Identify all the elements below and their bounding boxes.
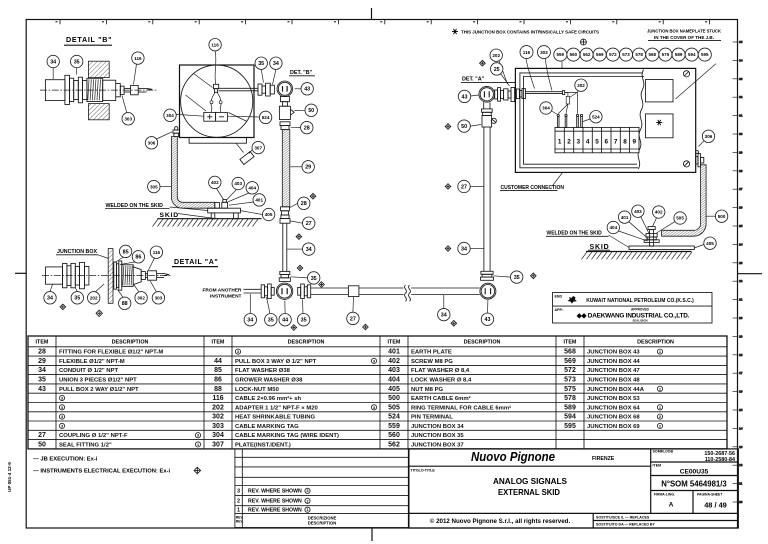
- svg-text:FLAT WASHER Ø 8,4: FLAT WASHER Ø 8,4: [411, 368, 470, 374]
- svg-text:CABLE 2×0.96 mm²+ sh: CABLE 2×0.96 mm²+ sh: [235, 395, 302, 402]
- balloon 305 flex: [148, 180, 160, 192]
- svg-text:INSTRUMENT: INSTRUMENT: [210, 293, 242, 299]
- balloon 116 jb: [520, 46, 533, 59]
- svg-text:JUNCTION BOX 35: JUNCTION BOX 35: [411, 433, 464, 439]
- svg-text:Nuovo Pignone: Nuovo Pignone: [471, 450, 555, 464]
- svg-text:ITEM: ITEM: [36, 340, 49, 346]
- leader line: [76, 288, 78, 292]
- svg-text:LOCK-NUT M50: LOCK-NUT M50: [235, 387, 280, 393]
- inst outlet union fittings: [258, 83, 274, 96]
- balloon 34 detail A: [44, 292, 56, 304]
- svg-text:401: 401: [388, 349, 400, 356]
- leader line: [170, 207, 208, 211]
- leader line: [228, 193, 249, 202]
- leader line: [487, 300, 489, 313]
- svg-text:EXTERNAL SKID: EXTERNAL SKID: [498, 488, 560, 497]
- leader line: [499, 61, 508, 84]
- customer stamp box: [553, 293, 713, 324]
- balloon 404 skid L: [246, 182, 258, 194]
- leader line: [150, 281, 156, 292]
- svg-text:SKID: SKID: [590, 244, 610, 251]
- svg-text:28: 28: [739, 169, 743, 173]
- svg-text:569: 569: [564, 358, 576, 365]
- svg-text:573: 573: [564, 377, 576, 384]
- svg-text:34: 34: [38, 367, 46, 374]
- balloon 307 tag: [252, 141, 264, 153]
- svg-text:FIRENZE: FIRENZE: [592, 456, 615, 462]
- svg-text:JUNCTION BOX 34: JUNCTION BOX 34: [411, 424, 464, 430]
- leader line: [115, 257, 124, 263]
- svg-text:401: 401: [621, 215, 629, 220]
- balloon 50 run1: [305, 104, 317, 116]
- svg-text:— INSTRUMENTS ELECTRICAL EXECU: — INSTRUMENTS ELECTRICAL EXECUTION: Ex-i: [33, 469, 170, 475]
- detail B wall hatched upper: [88, 61, 109, 77]
- svg-text:13: 13: [739, 445, 743, 449]
- circle chord lines: [194, 74, 213, 88]
- svg-text:302: 302: [137, 296, 145, 301]
- svg-text:34: 34: [306, 247, 312, 253]
- svg-text:RING TERMINAL FOR CABLE 6mm²: RING TERMINAL FOR CABLE 6mm²: [411, 404, 511, 411]
- balloon 28 run1: [301, 121, 313, 133]
- balloon 304 instrument: [164, 109, 176, 121]
- svg-text:3: 3: [577, 139, 581, 146]
- junction box outer: [515, 68, 695, 172]
- svg-text:28: 28: [304, 126, 310, 132]
- revision diamond: [531, 273, 537, 279]
- svg-text:7: 7: [614, 139, 618, 146]
- detail A centerline: [42, 275, 172, 277]
- balloon 304 wire: [540, 102, 552, 114]
- leader line: [122, 96, 127, 113]
- svg-text:85: 85: [123, 249, 129, 255]
- svg-text:568: 568: [564, 349, 576, 356]
- title block grid: [409, 449, 739, 528]
- leader line: [178, 214, 215, 219]
- balloon 403 earth: [632, 205, 644, 217]
- svg-text:22: 22: [739, 279, 743, 283]
- svg-text:GROWER WASHER Ø38: GROWER WASHER Ø38: [235, 378, 303, 384]
- svg-text:2: 2: [567, 139, 571, 146]
- svg-text:5: 5: [595, 139, 599, 146]
- detail B wall hatched lower: [88, 104, 109, 120]
- earth cable flex: [662, 165, 707, 236]
- balloon 401 skid L: [253, 194, 265, 206]
- svg-text:404: 404: [609, 225, 617, 230]
- detail B conduit body: [45, 80, 65, 101]
- svg-text:306: 306: [705, 134, 713, 139]
- earth stud on jb right wall: [696, 151, 704, 167]
- svg-text:JUNCTION BOX 69: JUNCTION BOX 69: [587, 424, 640, 430]
- fittings into jb: [495, 87, 515, 101]
- svg-text:404: 404: [388, 377, 400, 384]
- svg-text:35: 35: [301, 318, 307, 324]
- balloon 405 skid L: [262, 208, 274, 220]
- leader line: [229, 202, 253, 205]
- balloon 575 jb row: [659, 48, 672, 61]
- leader line: [134, 64, 137, 84]
- earth bolt assembly: [644, 227, 659, 247]
- svg-text:306: 306: [148, 141, 156, 146]
- svg-text:LOCK WASHER Ø 8,4: LOCK WASHER Ø 8,4: [411, 378, 472, 384]
- svg-text:116: 116: [134, 56, 142, 61]
- leader line: [52, 68, 54, 79]
- inst tag plate: [240, 151, 254, 164]
- junction box liner: [520, 73, 644, 168]
- cable inside jb: [516, 89, 564, 99]
- svg-text:11: 11: [739, 482, 743, 486]
- leader line: [652, 218, 656, 227]
- leader line: [118, 290, 124, 298]
- svg-text:ITEM: ITEM: [212, 340, 225, 346]
- svg-text:DESCRIPTION: DESCRIPTION: [288, 340, 325, 346]
- balloon 34 hpipe: [438, 308, 450, 320]
- mounting hole upper: [683, 71, 689, 77]
- skid ground line left: [157, 218, 261, 220]
- union above tee: [279, 271, 290, 281]
- balloon 303 detail B: [122, 113, 134, 125]
- svg-text:34: 34: [461, 246, 467, 252]
- revision diamond: [296, 234, 302, 240]
- conduit down from det A box: [483, 102, 485, 109]
- svg-text:REV. WHERE SHOWN: REV. WHERE SHOWN: [248, 499, 302, 505]
- svg-text:304: 304: [166, 113, 174, 118]
- svg-text:559: 559: [388, 423, 400, 430]
- leader line: [552, 173, 563, 187]
- leader line: [249, 294, 251, 314]
- svg-text:505: 505: [676, 216, 684, 221]
- wires to terminals: [210, 92, 222, 112]
- balloon 202 detail A: [88, 292, 100, 304]
- svg-text:25: 25: [739, 224, 743, 228]
- svg-text:305: 305: [150, 184, 158, 189]
- svg-text:UP 051-4 12-9: UP 051-4 12-9: [7, 462, 12, 492]
- svg-text:ITEM: ITEM: [388, 340, 401, 346]
- balloon 86 detail A: [132, 251, 144, 263]
- svg-text:562: 562: [388, 441, 400, 448]
- balloon 27 run1: [303, 217, 315, 229]
- revision diamond: [310, 193, 316, 199]
- svg-text:JUNCTION BOX 44A: JUNCTION BOX 44A: [587, 387, 645, 393]
- balloon 27 right run: [458, 180, 470, 192]
- leader line: [50, 284, 53, 291]
- svg-text:116: 116: [212, 395, 223, 402]
- wires to pins: [558, 93, 577, 114]
- parts list table grid: [28, 336, 727, 449]
- balloon 35 detail A: [71, 292, 83, 304]
- balloon 568 jb row: [646, 48, 659, 61]
- balloon 34 detail B: [47, 55, 59, 67]
- balloon 116 instrument: [209, 39, 221, 51]
- svg-text:21: 21: [739, 298, 743, 302]
- flexible conduit right run: [282, 130, 290, 207]
- leader line: [157, 132, 173, 139]
- svg-text:116: 116: [153, 250, 161, 255]
- svg-text:302: 302: [577, 83, 585, 88]
- nameplate rect upper: [646, 80, 674, 102]
- elbow pull box circle: [480, 283, 496, 299]
- balloon 35 tee left: [265, 314, 277, 326]
- svg-text:PLATE(INST.IDENT.): PLATE(INST.IDENT.): [235, 442, 291, 448]
- skid line right: [586, 251, 691, 253]
- svg-text:JUNCTION BOX 43: JUNCTION BOX 43: [587, 350, 640, 356]
- svg-text:CE00U35: CE00U35: [680, 469, 709, 476]
- svg-text:35: 35: [258, 61, 264, 67]
- leader line: [227, 190, 237, 201]
- centering mark bottom: [371, 528, 373, 541]
- balloon 35 above tee: [308, 272, 320, 284]
- conduit long down: [483, 127, 485, 271]
- svg-text:END: END: [555, 295, 563, 299]
- revision diamond: [319, 282, 325, 288]
- balloon 594 jb row: [685, 48, 698, 61]
- svg-text:28: 28: [38, 349, 46, 356]
- svg-text:18: 18: [739, 353, 743, 357]
- svg-text:TITOLO-TITLE: TITOLO-TITLE: [411, 469, 436, 473]
- revision diamond: [445, 246, 451, 252]
- svg-text:HEAT SHRINKABLE TUBING: HEAT SHRINKABLE TUBING: [235, 415, 315, 421]
- balloon 85 detail A: [119, 245, 131, 257]
- svg-text:NUT M8 PG: NUT M8 PG: [411, 387, 443, 393]
- centering mark top: [371, 8, 373, 20]
- svg-text:PAGINA-SHEET: PAGINA-SHEET: [697, 493, 723, 497]
- svg-text:SEAL FITTING 1/2": SEAL FITTING 1/2": [59, 442, 112, 448]
- svg-text:594: 594: [688, 52, 696, 57]
- balloon 43 head: [301, 83, 313, 95]
- balloon 43 det A: [458, 90, 470, 102]
- svg-text:APPROVED: APPROVED: [631, 308, 650, 312]
- svg-text:402: 402: [388, 358, 400, 365]
- svg-text:SEAL/SIGN: SEAL/SIGN: [632, 319, 647, 323]
- leader line: [76, 68, 78, 75]
- balloon 505 earth: [674, 212, 686, 224]
- leader line: [176, 114, 204, 116]
- svg-text:404: 404: [248, 186, 256, 191]
- svg-text:JUNCTION BOX: JUNCTION BOX: [57, 249, 97, 255]
- revision diamond: [291, 325, 297, 331]
- leader line: [443, 295, 445, 308]
- balloon 44 tee: [279, 314, 291, 326]
- svg-text:31: 31: [739, 114, 743, 118]
- balloon 562 jb row: [580, 48, 593, 61]
- svg-text:594: 594: [564, 414, 576, 421]
- instrument cable gland: [213, 84, 218, 92]
- svg-text:150-2687-56: 150-2687-56: [704, 451, 735, 457]
- tee right fittings: [298, 284, 311, 299]
- svg-text:CUSTOMER CONNECTION: CUSTOMER CONNECTION: [501, 185, 565, 191]
- svg-text:35: 35: [514, 275, 520, 281]
- svg-text:JUNCTION BOX 48: JUNCTION BOX 48: [587, 378, 640, 384]
- svg-text:KUWAIT NATIONAL PETROLEUM CO.(: KUWAIT NATIONAL PETROLEUM CO.(K.S.C.): [586, 298, 694, 304]
- svg-text:524: 524: [388, 414, 400, 421]
- svg-text:403: 403: [234, 181, 242, 186]
- leader line: [561, 62, 563, 69]
- svg-text:14: 14: [739, 426, 743, 430]
- svg-text:33: 33: [739, 77, 743, 81]
- svg-text:REV.: REV.: [236, 520, 244, 524]
- svg-text:304: 304: [212, 432, 224, 439]
- svg-text:FITTING FOR FLEXIBLE Ø1/2" NPT: FITTING FOR FLEXIBLE Ø1/2" NPT-M: [59, 350, 163, 356]
- balloon 35 tee right: [297, 314, 309, 326]
- svg-text:WELDED ON THE SKID: WELDED ON THE SKID: [106, 203, 164, 209]
- svg-text:© 2012 Nuovo Pignone S.r.l., a: © 2012 Nuovo Pignone S.r.l., all rights …: [430, 518, 571, 525]
- svg-text:17: 17: [739, 371, 743, 375]
- svg-text:19: 19: [739, 334, 743, 338]
- svg-text:569: 569: [596, 52, 604, 57]
- svg-text:573: 573: [622, 52, 630, 57]
- svg-text:DESCRIPTION: DESCRIPTION: [464, 340, 501, 346]
- svg-text:APP.:: APP.:: [555, 308, 564, 312]
- svg-text:FROM ANOTHER: FROM ANOTHER: [203, 288, 243, 294]
- svg-text:6: 6: [605, 139, 609, 146]
- transmitter head circle: [277, 81, 293, 97]
- detail A gland body: [122, 265, 169, 287]
- svg-text:24: 24: [739, 242, 743, 246]
- leader line: [133, 284, 139, 292]
- leader line: [120, 262, 135, 265]
- coupling lower: [281, 207, 290, 215]
- svg-text:35: 35: [268, 318, 274, 324]
- svg-text:88: 88: [214, 386, 222, 393]
- svg-text:DESCRIPTION: DESCRIPTION: [637, 340, 674, 346]
- svg-text:30: 30: [739, 132, 743, 136]
- svg-text:35: 35: [311, 276, 317, 282]
- svg-text:THIS JUNCTION BOX CONTAINS INT: THIS JUNCTION BOX CONTAINS INTRINSICALLY…: [461, 29, 600, 35]
- svg-text:27: 27: [306, 221, 312, 227]
- balloon 404 earth: [607, 221, 619, 233]
- svg-text:23: 23: [739, 261, 743, 265]
- right border ruler ticks: [733, 40, 743, 504]
- leader line: [267, 297, 271, 314]
- balloon 35 inst outlet: [255, 57, 267, 69]
- union above elbow: [481, 271, 494, 280]
- skid hatch left: [153, 219, 259, 227]
- svg-text:28: 28: [301, 201, 307, 207]
- mounting hole lower: [683, 161, 689, 167]
- svg-text:JUNCTION BOX 44: JUNCTION BOX 44: [587, 359, 640, 365]
- square coupling: [348, 286, 359, 297]
- instrument circle: [181, 65, 253, 137]
- svg-text:27: 27: [739, 187, 743, 191]
- fitting 27: [280, 215, 290, 223]
- svg-text:CABLE MARKING TAG (WIRE IDENT): CABLE MARKING TAG (WIRE IDENT): [235, 433, 339, 439]
- balloon 50 right run: [458, 120, 470, 132]
- balloon 34 tee: [244, 314, 256, 326]
- svg-text:303: 303: [155, 296, 163, 301]
- balloon 405 earth: [704, 237, 716, 249]
- pin terminals: [557, 114, 583, 127]
- balloon 116 detail B: [132, 52, 144, 64]
- svg-text:2: 2: [237, 499, 240, 505]
- svg-text:560: 560: [388, 432, 400, 439]
- svg-text:SOMM./JOB: SOMM./JOB: [653, 449, 674, 453]
- svg-text:REV. WHERE SHOWN: REV. WHERE SHOWN: [248, 508, 302, 514]
- pipe break squiggle: [405, 285, 407, 301]
- detail A union rings: [63, 262, 89, 288]
- revision diamond: [363, 324, 369, 330]
- revision diamond: [96, 310, 102, 316]
- balloon 116 detail A: [150, 246, 162, 258]
- svg-text:25: 25: [494, 67, 500, 73]
- svg-text:202: 202: [90, 296, 98, 301]
- svg-text:JUNCTION BOX NAMEPLATE STUCK: JUNCTION BOX NAMEPLATE STUCK: [647, 28, 722, 33]
- leader line: [273, 69, 276, 84]
- svg-text:86: 86: [135, 255, 141, 261]
- svg-text:JUNCTION BOX 68: JUNCTION BOX 68: [587, 415, 640, 421]
- left flexible conduit: [171, 137, 214, 209]
- leader line: [629, 222, 649, 239]
- balloon 35 above elbow: [511, 271, 523, 283]
- balloon 403 skid L: [232, 177, 244, 189]
- svg-text:FLEXIBLE Ø1/2" NPT-M: FLEXIBLE Ø1/2" NPT-M: [59, 359, 125, 365]
- balloon 595 jb row: [698, 48, 711, 61]
- revision diamond: [445, 184, 451, 190]
- svg-text:ADAPTER 1 1/2" NPT-F × M20: ADAPTER 1 1/2" NPT-F × M20: [235, 405, 319, 411]
- balloon 34 right run: [458, 242, 470, 254]
- svg-text:595: 595: [701, 52, 709, 57]
- revision diamond: [60, 304, 66, 310]
- svg-text:43: 43: [38, 386, 46, 393]
- svg-text:48 / 49: 48 / 49: [704, 501, 727, 510]
- svg-text:DET. "B": DET. "B": [290, 70, 313, 76]
- svg-text:29: 29: [38, 358, 46, 365]
- revision table grid: [235, 449, 409, 528]
- svg-text:50: 50: [38, 441, 46, 448]
- tee left fittings: [261, 284, 274, 299]
- svg-text:402: 402: [211, 180, 219, 185]
- svg-text:IN THE COVER OF THE J.B.: IN THE COVER OF THE J.B.: [654, 35, 714, 40]
- detail A washers: [114, 261, 122, 290]
- balloon 524 instrument: [259, 111, 271, 123]
- union seal fitting body: [279, 106, 294, 119]
- svg-text:20: 20: [739, 316, 743, 320]
- svg-text:UNION 3 PIECES Ø1/2" NPT: UNION 3 PIECES Ø1/2" NPT: [59, 378, 137, 384]
- skid pull box plate: [208, 200, 241, 219]
- svg-text:SCREW M8 PG: SCREW M8 PG: [411, 359, 453, 365]
- svg-text:43: 43: [304, 87, 310, 93]
- leader line: [583, 119, 590, 122]
- svg-text:EARTH CABLE 6mm²: EARTH CABLE 6mm²: [411, 395, 471, 402]
- svg-text:559: 559: [557, 52, 565, 57]
- balloon 34 run1: [303, 243, 315, 255]
- svg-text:27: 27: [350, 316, 356, 322]
- detail A conduit body: [46, 267, 63, 284]
- svg-text:403: 403: [388, 367, 400, 374]
- balloon 500 earth cable: [715, 210, 727, 222]
- svg-text:34: 34: [50, 59, 56, 65]
- balloon 401 earth: [618, 211, 630, 223]
- svg-text:35: 35: [38, 377, 46, 384]
- svg-text:34: 34: [247, 318, 253, 324]
- svg-text:PIN TERMINAL: PIN TERMINAL: [411, 415, 453, 421]
- svg-text:307: 307: [212, 441, 224, 448]
- leader line: [641, 217, 650, 236]
- instrument enclosure box: [180, 65, 255, 138]
- detail B centerline: [40, 89, 158, 91]
- leader line: [217, 189, 224, 200]
- svg-text:500: 500: [388, 395, 400, 402]
- svg-text:34: 34: [273, 61, 279, 67]
- svg-text:N°SOM 5464981/3: N°SOM 5464981/3: [661, 480, 727, 489]
- svg-text:202: 202: [212, 404, 224, 411]
- detail B adapter body: [103, 80, 153, 100]
- svg-text:405: 405: [706, 241, 714, 246]
- svg-text:44: 44: [282, 318, 288, 324]
- svg-text:A: A: [669, 502, 674, 509]
- rigid conduit down: [282, 223, 284, 271]
- balloon 29 run1: [302, 161, 314, 173]
- union rings right run: [482, 109, 493, 116]
- leader line: [249, 150, 252, 154]
